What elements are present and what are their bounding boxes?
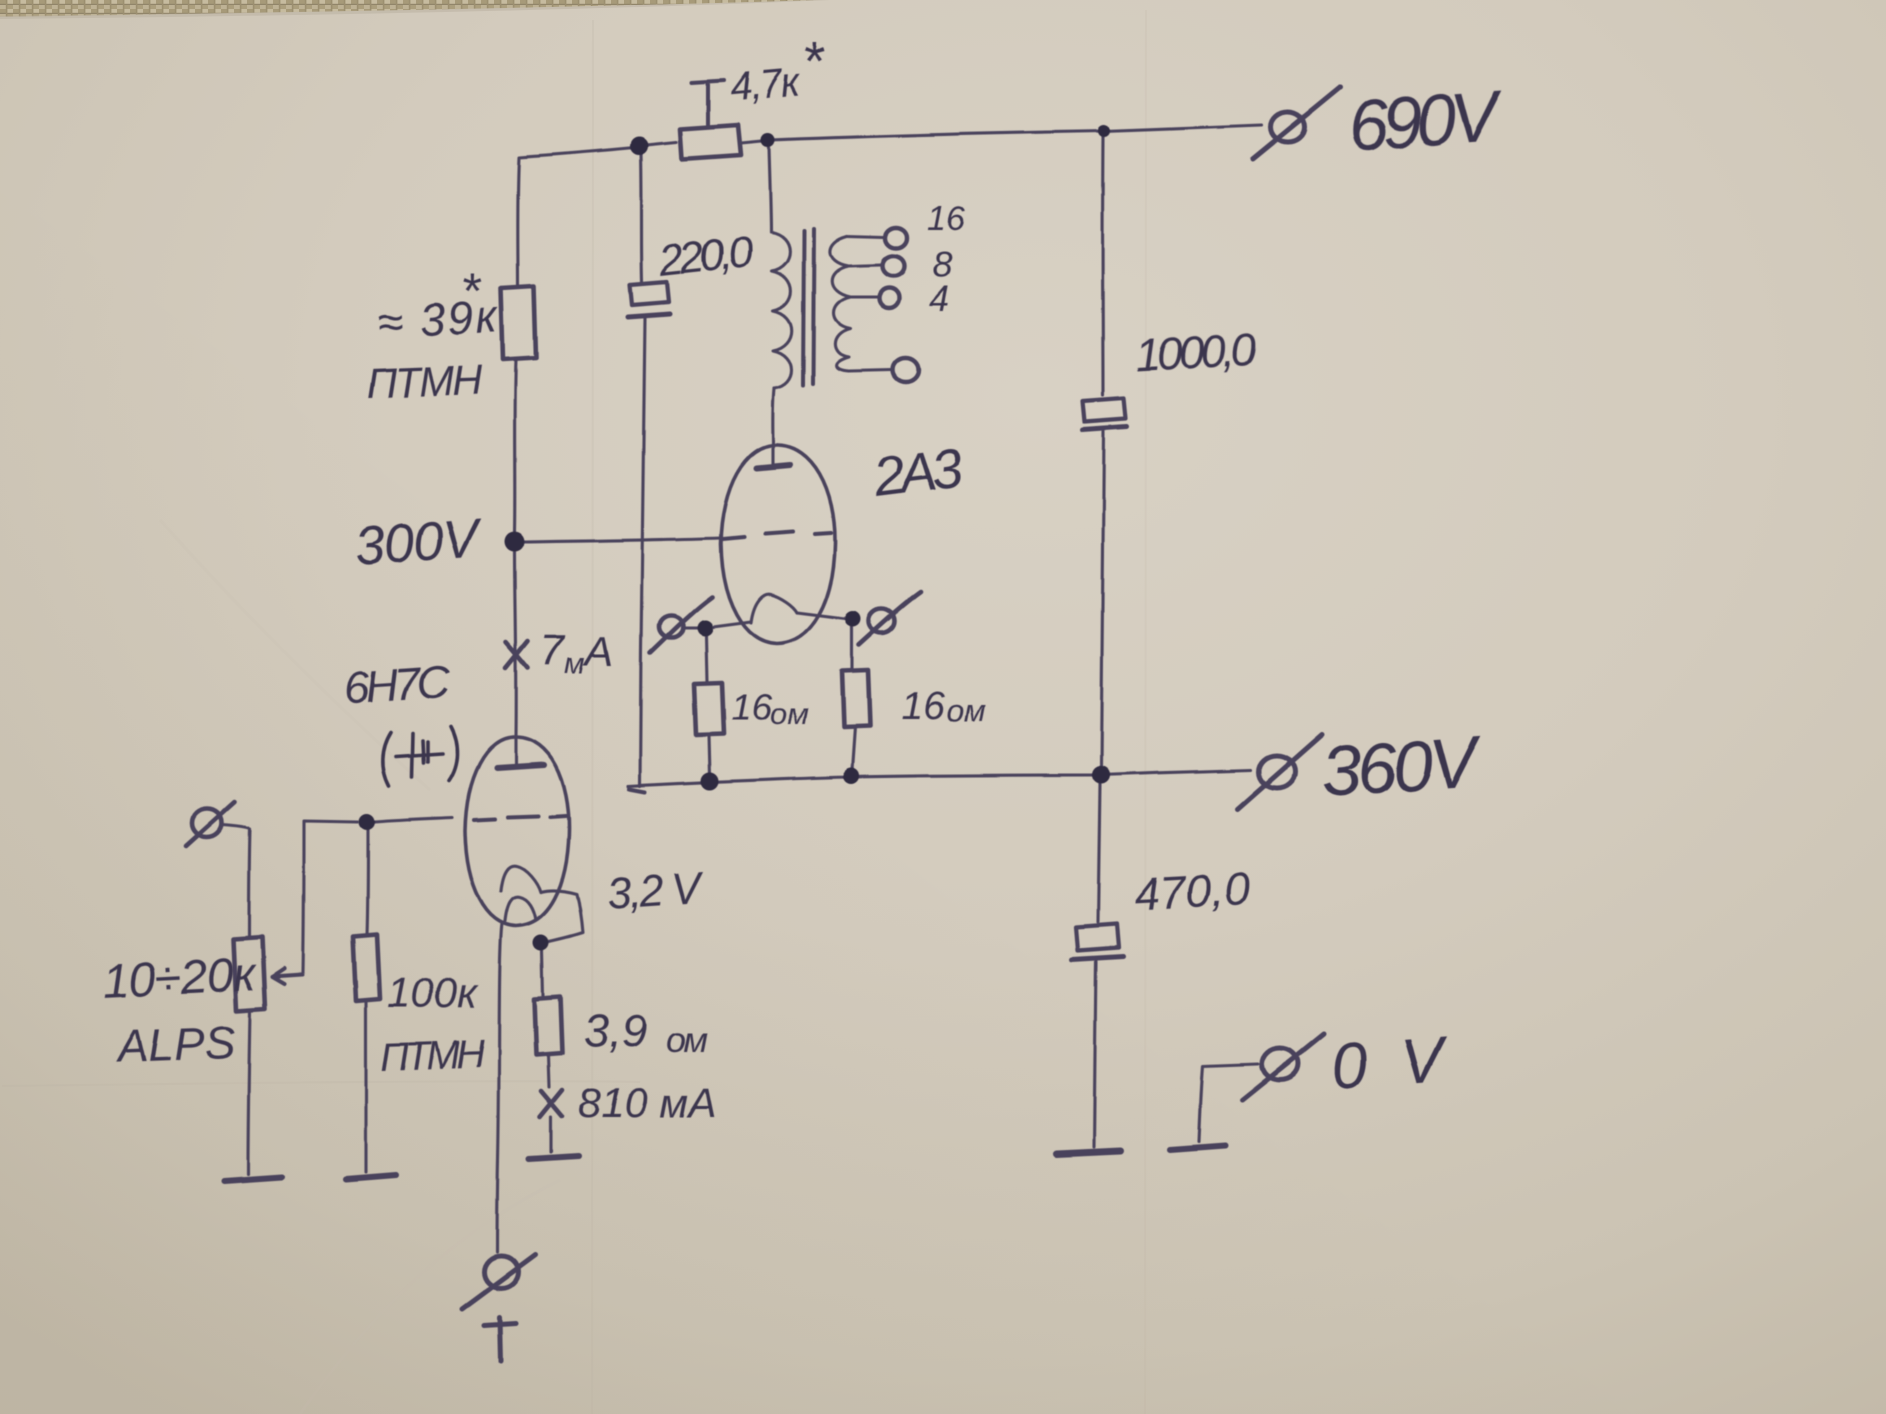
junction J dot xyxy=(533,935,549,951)
junction C dot xyxy=(1098,125,1110,137)
wire: capacitor 220,0 down to 360V rail xyxy=(640,318,645,786)
wire: resistor 3,9ohm to X 810mA xyxy=(548,1055,549,1087)
wire: node 300V to 2A3 grid xyxy=(525,538,721,542)
360V rail wire xyxy=(628,770,1251,786)
wire: junction B to junction C (690V rail) xyxy=(770,131,1104,140)
svg-text:ом: ом xyxy=(946,693,986,729)
terminal input circle xyxy=(192,809,222,837)
svg-text:100к: 100к xyxy=(387,969,479,1016)
wire: node 300V down to X 7mA and 6H7C anode xyxy=(515,552,516,737)
svg-text:ПТМН: ПТМН xyxy=(380,1032,486,1080)
tube 2A3 envelope xyxy=(721,445,835,644)
junction I dot xyxy=(1092,766,1110,784)
junction G dot xyxy=(701,772,719,790)
svg-text:ом: ом xyxy=(770,696,809,731)
ground bar at 0V xyxy=(1170,1146,1225,1150)
resistor 3,9ohm body xyxy=(534,997,562,1055)
wire: resistor 16ohm left to 360V rail xyxy=(709,735,710,775)
resistor 16ohm right body xyxy=(842,670,870,727)
wire: wiper up to grid junction K xyxy=(303,821,358,973)
svg-text:10÷20к: 10÷20к xyxy=(102,948,259,1009)
svg-text:ALPS: ALPS xyxy=(114,1016,237,1072)
terminal cathode left slash xyxy=(650,597,712,653)
junction dots xyxy=(359,125,1110,951)
svg-text:3,9: 3,9 xyxy=(583,1005,647,1057)
svg-text:4: 4 xyxy=(929,278,949,319)
potentiometer 10-20k body xyxy=(233,937,265,1011)
capacitor 220,0 top plate xyxy=(630,282,669,305)
ground bar under capacitor 470,0 xyxy=(1056,1151,1121,1154)
2A3 plate bar xyxy=(757,465,790,468)
svg-text:0 V: 0 V xyxy=(1329,1023,1451,1103)
capacitor 470,0 bottom plate xyxy=(1072,956,1123,959)
label parallel-triodes symbol xyxy=(383,727,458,786)
svg-text:470,0: 470,0 xyxy=(1133,862,1252,920)
terminal cathode left circle xyxy=(659,616,683,638)
wire: junction A to left corner then down to resistor 39k xyxy=(518,147,639,288)
terminal + circle xyxy=(484,1256,518,1288)
2A3 grid dashes xyxy=(723,532,831,539)
6H7C plate bar xyxy=(497,765,544,768)
wire: resistor 100k to ground xyxy=(364,1001,367,1172)
svg-text:690V: 690V xyxy=(1346,76,1507,167)
terminal + slash xyxy=(462,1255,535,1309)
wire: capacitor 470,0 down to ground xyxy=(1094,961,1096,1147)
X mark 810mA xyxy=(540,1090,562,1117)
wire: potentiometer bottom to ground xyxy=(248,1011,250,1174)
svg-text:220,0: 220,0 xyxy=(656,227,756,286)
2A3 cathode arc xyxy=(751,595,797,623)
wire: 6H7C heater lead down to + terminal xyxy=(497,923,502,1252)
svg-text:16: 16 xyxy=(927,200,965,238)
svg-text:ПТМН: ПТМН xyxy=(366,356,484,407)
6H7C cathode arc xyxy=(501,866,541,892)
transformer tap 8 wire xyxy=(848,265,881,266)
X mark 7mA xyxy=(506,641,528,668)
wire: resistor 39k down to node 300V xyxy=(515,360,516,532)
ground bar under resistor 100k xyxy=(346,1175,396,1179)
junction K dot xyxy=(359,814,375,830)
plus sign xyxy=(484,1317,516,1362)
junction F dot xyxy=(845,611,861,627)
paper creases (faint) xyxy=(2,10,1146,1414)
terminal 0V slash xyxy=(1242,1034,1324,1100)
wire: junction C to 690V terminal xyxy=(1104,125,1262,131)
tube 6H7C envelope xyxy=(465,737,569,926)
resistor 100k body xyxy=(353,935,380,1001)
svg-text:300V: 300V xyxy=(353,508,486,577)
capacitor 470,0 top plate xyxy=(1076,924,1119,950)
wire: transformer primary to 2A3 plate xyxy=(773,389,774,446)
wire: junction K down to resistor 100k xyxy=(367,830,368,936)
svg-text:ом: ом xyxy=(666,1019,708,1060)
wire: junction B down to output transformer primary xyxy=(769,147,771,232)
wire: junction E down to resistor 16ohm left xyxy=(706,636,707,683)
capacitor 1000,0 top plate xyxy=(1083,398,1126,422)
wire: capacitor 1000,0 down to junction I on 360V rail xyxy=(1101,432,1104,767)
terminal cathode right circle xyxy=(869,609,895,633)
transformer tap 8 circle xyxy=(882,256,904,276)
svg-text:16: 16 xyxy=(901,685,945,728)
svg-text:1000,0: 1000,0 xyxy=(1134,323,1259,381)
transformer tap 4 wire xyxy=(850,295,877,298)
transformer T1 primary winding xyxy=(771,232,792,389)
wire: junction J down to resistor 3,9ohm xyxy=(542,951,543,997)
fabric strip along top edge xyxy=(0,0,820,17)
360V rail left end tick xyxy=(629,789,645,792)
transformer T1 core xyxy=(803,229,814,386)
2A3 plate lead xyxy=(771,446,774,466)
wire: 690V rail from junction A to resistor 4,7k xyxy=(646,142,676,145)
wire: 2A3 cathode to junction F xyxy=(797,613,845,619)
6H7C inner arc xyxy=(505,897,536,921)
transformer tap 4 circle xyxy=(879,288,899,308)
terminal 690V slash xyxy=(1253,87,1341,159)
ground bar under potentiometer xyxy=(224,1177,282,1181)
svg-text:3,2 V: 3,2 V xyxy=(605,863,706,919)
resistor R 4,7k body xyxy=(680,125,741,159)
svg-text:360V: 360V xyxy=(1319,722,1486,813)
junction H dot xyxy=(843,768,859,784)
wire: junction I down to capacitor 470,0 xyxy=(1098,784,1100,922)
svg-text:16: 16 xyxy=(731,687,773,728)
wire: junction C down to capacitor 1000,0 xyxy=(1101,137,1105,395)
ground bar under resistor 3,9ohm xyxy=(529,1156,578,1159)
terminal cathode right slash xyxy=(859,592,921,645)
wire: junction E to left cathode terminal xyxy=(682,626,699,629)
wire: junction F down to resistor 16ohm right xyxy=(850,627,853,670)
terminal 360V slash xyxy=(1238,735,1322,809)
transformer tap 16 circle xyxy=(885,228,907,248)
junction E dot xyxy=(697,620,713,636)
wire: junction A down to capacitor 220,0 xyxy=(641,153,642,282)
svg-text:810 мА: 810 мА xyxy=(578,1079,717,1126)
wire: 0V terminal to ground xyxy=(1199,1064,1258,1142)
svg-text:2А3: 2А3 xyxy=(869,435,967,509)
svg-text:6Н7С: 6Н7С xyxy=(342,655,452,714)
wire: 3,2V loop right side xyxy=(541,891,583,942)
potentiometer wiper arrow xyxy=(272,969,302,984)
wire: 2A3 cathode to junction E xyxy=(713,622,751,627)
resistor 16ohm left body xyxy=(694,683,724,735)
svg-text:*: * xyxy=(802,32,825,92)
6H7C grid dashes xyxy=(474,816,566,820)
terminal 0V circle xyxy=(1262,1048,1298,1080)
resistor R 39k body xyxy=(501,287,536,360)
stub above resistor 4,7k xyxy=(692,80,724,126)
6H7C plate lead xyxy=(514,739,517,765)
capacitor 1000,0 bottom plate xyxy=(1083,427,1127,430)
terminal input slash xyxy=(186,802,235,846)
wire: input terminal to potentiometer top xyxy=(222,825,250,938)
node 300V dot xyxy=(505,532,525,552)
transformer bottom tap circle xyxy=(893,358,919,382)
transformer bottom tap wire xyxy=(849,370,892,371)
transformer T1 secondary winding xyxy=(830,236,850,371)
transformer tap 16 wire xyxy=(847,236,883,237)
svg-text:4,7к: 4,7к xyxy=(728,60,804,110)
wire: grid wire into 6H7C xyxy=(375,818,452,822)
svg-text:≈ 39к: ≈ 39к xyxy=(376,290,501,348)
wire: resistor 4,7k to junction B xyxy=(741,141,762,143)
wire: X 810mA to ground xyxy=(549,1117,552,1152)
junction B dot xyxy=(761,133,775,147)
wire: resistor 16ohm right to 360V rail xyxy=(852,727,855,770)
junction A dot xyxy=(630,137,648,155)
terminal 360V circle xyxy=(1259,756,1295,788)
terminal 690V circle xyxy=(1271,112,1305,142)
capacitor 220,0 bottom plate xyxy=(628,314,670,317)
